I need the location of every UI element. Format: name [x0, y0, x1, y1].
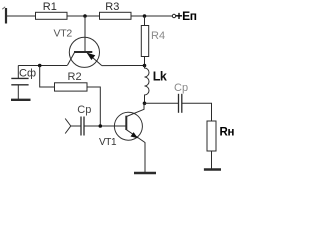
svg-text:R2: R2	[68, 71, 82, 83]
node A junction dot	[83, 14, 87, 18]
wire R4 to node C	[144, 57, 146, 66]
transistor VT1	[114, 103, 145, 142]
inductor Lk	[145, 66, 150, 104]
wire R3 to +Ep terminal	[131, 15, 172, 17]
wire input to R1	[7, 15, 36, 17]
wire VT2 left leg to Cf node	[18, 65, 67, 67]
resistor R2 with leads	[40, 66, 101, 127]
svg-text:R3: R3	[105, 1, 119, 13]
node D junction dot (R2 tap)	[38, 64, 42, 68]
wire node E to Cp	[145, 102, 179, 104]
node B junction dot (R4 tap)	[143, 14, 147, 18]
ground under VT1	[134, 172, 156, 174]
resistor Rn	[207, 121, 216, 151]
wire node B to R4	[144, 16, 146, 26]
svg-text:Rн: Rн	[220, 127, 235, 139]
svg-text:VT1: VT1	[99, 137, 117, 148]
svg-text:R1: R1	[43, 1, 57, 13]
capacitor Cp (output)	[179, 94, 182, 113]
svg-text:R4: R4	[151, 30, 165, 42]
svg-text:Ср: Ср	[174, 82, 188, 94]
svg-text:Сф: Сф	[19, 67, 36, 79]
svg-text:Ср: Ср	[77, 104, 91, 116]
svg-text:VT2: VT2	[54, 28, 73, 40]
wire VT1 emitter to ground	[144, 142, 146, 172]
wire Rn to ground	[211, 151, 213, 169]
node E junction dot (Lk bottom / VT1 collector / Cp)	[143, 102, 147, 106]
transistor VT2	[67, 37, 102, 67]
capacitor Cp (input)	[81, 117, 84, 136]
svg-text:Lk: Lk	[153, 70, 167, 84]
wire Cp input to VT1 base	[84, 125, 126, 127]
wire R1 to node A	[67, 15, 100, 17]
capacitor Cf	[11, 66, 28, 100]
input terminal bar	[2, 7, 6, 24]
node C junction dot	[143, 64, 147, 68]
input source chevron	[65, 119, 71, 134]
ground under Cf	[11, 99, 31, 101]
resistor R4	[141, 26, 148, 57]
resistor R3	[100, 12, 132, 19]
ground under Rn	[204, 168, 221, 170]
wire Cp to Rn	[182, 103, 212, 121]
resistor R1	[36, 12, 68, 19]
svg-text:+Еп: +Еп	[176, 9, 197, 23]
terminal +Ep circle	[172, 14, 175, 17]
wire node A to VT2 base	[84, 16, 86, 51]
node F junction dot (R2 / base)	[99, 124, 103, 128]
wire VT2 right leg to node C	[102, 65, 145, 67]
wire chevron to Cp input	[71, 125, 81, 127]
